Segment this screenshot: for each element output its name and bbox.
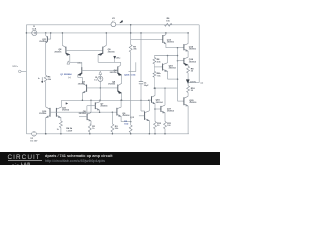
wire — [167, 56, 169, 63]
wire Q19 base — [154, 66, 162, 68]
resistor R9 — [187, 66, 190, 73]
svg-text:2N3904: 2N3904 — [79, 112, 87, 115]
svg-text:3k: 3k — [57, 129, 59, 131]
svg-text:Q2.B net14: Q2.B net14 — [124, 74, 136, 77]
wire — [121, 121, 131, 123]
transistor Q11 — [45, 33, 47, 36]
footer bar — [0, 152, 220, 165]
node flag VCC — [19, 70, 22, 73]
current source I1 — [32, 30, 37, 35]
wire V+ rail H2 — [26, 32, 188, 34]
capacitor C1 — [139, 81, 143, 83]
wire jog — [78, 76, 83, 78]
wire Q16 base — [149, 99, 152, 101]
resistor R11 — [164, 122, 167, 129]
svg-text:2N3906: 2N3906 — [78, 84, 86, 86]
resistor R12 — [154, 122, 157, 129]
flag arrow I2 — [99, 71, 102, 74]
svg-text:2N3906: 2N3906 — [167, 42, 175, 44]
wire — [105, 33, 107, 46]
wire Q16 collector node — [154, 87, 177, 89]
transistor Q7 — [99, 100, 101, 102]
wire — [45, 82, 47, 107]
transistor Q13 — [162, 35, 164, 43]
footer text — [45, 154, 113, 158]
current source I2 — [98, 76, 103, 81]
wire bottom rail — [26, 133, 189, 135]
svg-text:2N3904: 2N3904 — [169, 67, 177, 70]
svg-text:1.25W: 1.25W — [66, 130, 72, 132]
wire jog — [141, 110, 145, 112]
wire Q17 base — [155, 108, 161, 110]
resistor R8b — [153, 71, 156, 77]
svg-text:2N3904: 2N3904 — [156, 101, 164, 104]
wire — [166, 47, 184, 49]
wire Q8 collector — [69, 55, 71, 63]
transistor Q10 — [46, 107, 50, 109]
wire Q20 base — [178, 100, 184, 102]
transistor Q4 — [117, 85, 119, 92]
probe flag — [120, 20, 123, 23]
resistor R5 — [44, 75, 47, 82]
svg-text:1kΩ: 1kΩ — [124, 123, 128, 125]
transistor Q12b — [55, 108, 57, 117]
wire — [90, 100, 92, 112]
wire right rail — [198, 25, 200, 83]
flag arrow net1 — [67, 61, 70, 64]
wire Q3-Q4 base — [87, 87, 118, 89]
CircuitLab logo — [8, 154, 41, 161]
wire bias line — [130, 25, 132, 45]
junction — [45, 32, 47, 34]
wire — [130, 52, 132, 125]
svg-text:VCC+: VCC+ — [12, 66, 18, 68]
wire Q18 base — [178, 60, 184, 62]
wire — [61, 33, 63, 46]
current arrow annotation — [41, 77, 43, 81]
wire to Q11 collector — [61, 100, 63, 107]
wire — [187, 73, 189, 86]
svg-text:30pF: 30pF — [144, 85, 150, 87]
svg-text:2N3904: 2N3904 — [62, 109, 70, 112]
resistor R3 — [112, 111, 114, 113]
resistor R6 — [165, 23, 173, 26]
svg-text:1m: 1m — [94, 79, 97, 81]
junction — [26, 32, 28, 34]
svg-text:2N3906: 2N3906 — [54, 51, 62, 53]
flag OUT — [186, 80, 189, 84]
voltmeter V2 — [111, 22, 116, 27]
wire — [120, 100, 122, 107]
voltage source V1 — [32, 132, 37, 137]
wire Q18 collector node — [154, 55, 177, 57]
wire stub — [135, 62, 137, 71]
svg-text:2N3906: 2N3906 — [189, 102, 197, 104]
transistor Q5 — [86, 113, 88, 120]
svg-text:1mA: 1mA — [32, 28, 37, 31]
wire right collector bus — [98, 61, 121, 63]
wire Q7 base — [87, 105, 95, 107]
wire Q8-Q9 base — [66, 49, 103, 51]
svg-text:2N3904: 2N3904 — [100, 105, 108, 108]
resistor R8a — [153, 56, 155, 58]
transistor Q1 — [81, 62, 83, 67]
wire left rail — [25, 25, 27, 134]
resistor R7 — [129, 45, 132, 52]
svg-text:2N3906: 2N3906 — [108, 51, 116, 53]
wire Q19 emitter — [168, 78, 178, 80]
wire Q15 base stub — [139, 115, 144, 117]
transistor Q3 — [82, 83, 86, 85]
wire collector bus H10 — [62, 99, 149, 101]
transistor Q14 — [183, 44, 185, 50]
transistor Q2 — [117, 66, 119, 74]
resistor R2 — [129, 125, 132, 133]
svg-text:Q1 2N3904: Q1 2N3904 — [60, 73, 72, 76]
svg-text:2N3904: 2N3904 — [167, 110, 175, 113]
wire — [99, 74, 101, 76]
flag tiny — [66, 103, 68, 105]
svg-text:out: out — [200, 82, 203, 85]
resistor R4 — [59, 121, 62, 128]
wire — [154, 88, 156, 95]
wire left collector bus — [70, 61, 82, 63]
flag IN- arrow — [114, 56, 116, 59]
svg-text:2N3906: 2N3906 — [189, 49, 197, 51]
transistor Q6 — [116, 108, 118, 116]
wire C1 line — [140, 33, 142, 82]
wire Q11 base tie — [48, 38, 51, 40]
wire base bus Q10-Q6 — [50, 111, 117, 113]
svg-text:2N3906: 2N3906 — [110, 72, 118, 74]
wire — [164, 88, 166, 105]
wire — [148, 100, 150, 110]
wire Q13 base — [131, 38, 163, 40]
svg-text:(IN-): (IN-) — [117, 58, 121, 60]
wire — [140, 84, 142, 111]
wire top rail H1 — [26, 24, 199, 26]
resistor R1 — [88, 124, 91, 132]
resistor R10 — [187, 86, 190, 93]
wire — [81, 77, 83, 83]
wire out to right rail — [188, 82, 199, 84]
svg-text:2N3906: 2N3906 — [108, 84, 116, 86]
transistor Q15 — [144, 111, 146, 120]
svg-text:(+): (+) — [68, 77, 71, 79]
wire Q1-Q2 base — [82, 69, 118, 71]
wire — [99, 81, 101, 100]
wire — [86, 106, 88, 114]
svg-text:(OUT): (OUT) — [190, 81, 196, 83]
svg-text:2N3904: 2N3904 — [39, 112, 47, 115]
wire Q5 base stub — [79, 116, 87, 118]
wire Q9 collector — [97, 55, 99, 63]
wire right mid vertical — [177, 48, 179, 101]
svg-text:2N3904: 2N3904 — [189, 60, 197, 63]
wire — [187, 106, 189, 134]
svg-text:2N3904: 2N3904 — [39, 40, 47, 43]
svg-text:DC 15V: DC 15V — [30, 140, 38, 142]
wire stub2 — [129, 71, 136, 73]
wire — [187, 33, 189, 44]
